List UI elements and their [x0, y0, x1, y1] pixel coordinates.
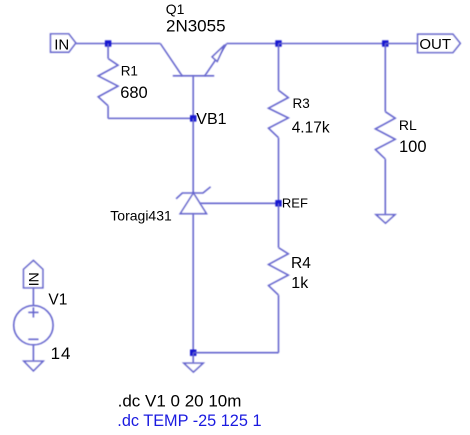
port flag OUT [418, 34, 461, 53]
plus sign [28, 311, 38, 313]
voltage source V1 [14, 306, 53, 345]
svg-text:IN: IN [26, 272, 42, 286]
svg-text:IN: IN [54, 36, 69, 53]
svg-text:REF: REF [282, 196, 308, 211]
svg-text:680: 680 [120, 84, 148, 102]
wire node A to Q1 collector [108, 43, 160, 45]
svg-text:Q1: Q1 [166, 1, 185, 17]
wire ground node to ground symbol [192, 353, 194, 363]
port flag IN [51, 34, 76, 54]
wire U1 ref pin to node REF [200, 202, 278, 204]
svg-text:.dc TEMP -25 125 1: .dc TEMP -25 125 1 [117, 412, 261, 430]
svg-text:R4: R4 [291, 255, 311, 272]
resistor R3 [269, 44, 289, 204]
base bar [173, 75, 214, 77]
svg-text:VB1: VB1 [196, 111, 226, 128]
wire node C to OUT flag [385, 43, 417, 45]
resistor R4 [269, 203, 289, 352]
wire VB1 to U1 cathode [192, 118, 194, 193]
svg-text:2N3055: 2N3055 [166, 17, 226, 36]
ground (under V1) [24, 361, 43, 371]
base stem [192, 76, 194, 119]
resistor R1 [98, 44, 118, 119]
anode triangle [180, 193, 206, 214]
svg-text:4.17k: 4.17k [292, 120, 330, 137]
svg-text:14: 14 [51, 344, 72, 363]
svg-text:.dc V1 0 20 10m: .dc V1 0 20 10m [118, 391, 242, 410]
wire Q1 emitter to node B [227, 43, 279, 45]
wire R1 bottom to VB1 [108, 117, 193, 119]
svg-text:OUT: OUT [419, 36, 451, 53]
minus sign [28, 338, 38, 340]
svg-text:RL: RL [399, 117, 417, 133]
wire IN flag to V1 plus [32, 288, 34, 306]
junction VB1 [190, 115, 196, 121]
wire V1 minus to ground [32, 345, 34, 361]
junction node B [275, 40, 281, 46]
svg-text:1k: 1k [291, 275, 309, 292]
port flag IN at V1 (vertical) [24, 260, 43, 288]
junction node C [382, 40, 388, 46]
wire ground node to R4 bottom [193, 352, 278, 354]
collector lead [160, 44, 182, 76]
junction node A [105, 40, 111, 46]
svg-text:Toragi431: Toragi431 [110, 207, 172, 223]
wire IN flag to node A [76, 43, 108, 45]
junction REF [275, 200, 281, 206]
emitter arrow [212, 45, 225, 62]
svg-text:V1: V1 [48, 292, 67, 309]
svg-text:R3: R3 [293, 96, 310, 111]
transistor Q1 (2N3055 NPN pass transistor) [160, 44, 226, 119]
wire U1 anode down [192, 214, 194, 353]
svg-text:100: 100 [399, 138, 427, 156]
ground (under RL) [376, 215, 395, 224]
wire node B to node C [279, 43, 386, 45]
svg-text:R1: R1 [121, 63, 138, 78]
junction anode/ground node [190, 350, 196, 356]
emitter lead [205, 44, 227, 76]
resistor RL [375, 44, 395, 215]
cathode bar with zener ticks [176, 187, 211, 199]
shunt regulator U1 Toragi431 [176, 187, 211, 214]
ground (center) [184, 363, 203, 372]
